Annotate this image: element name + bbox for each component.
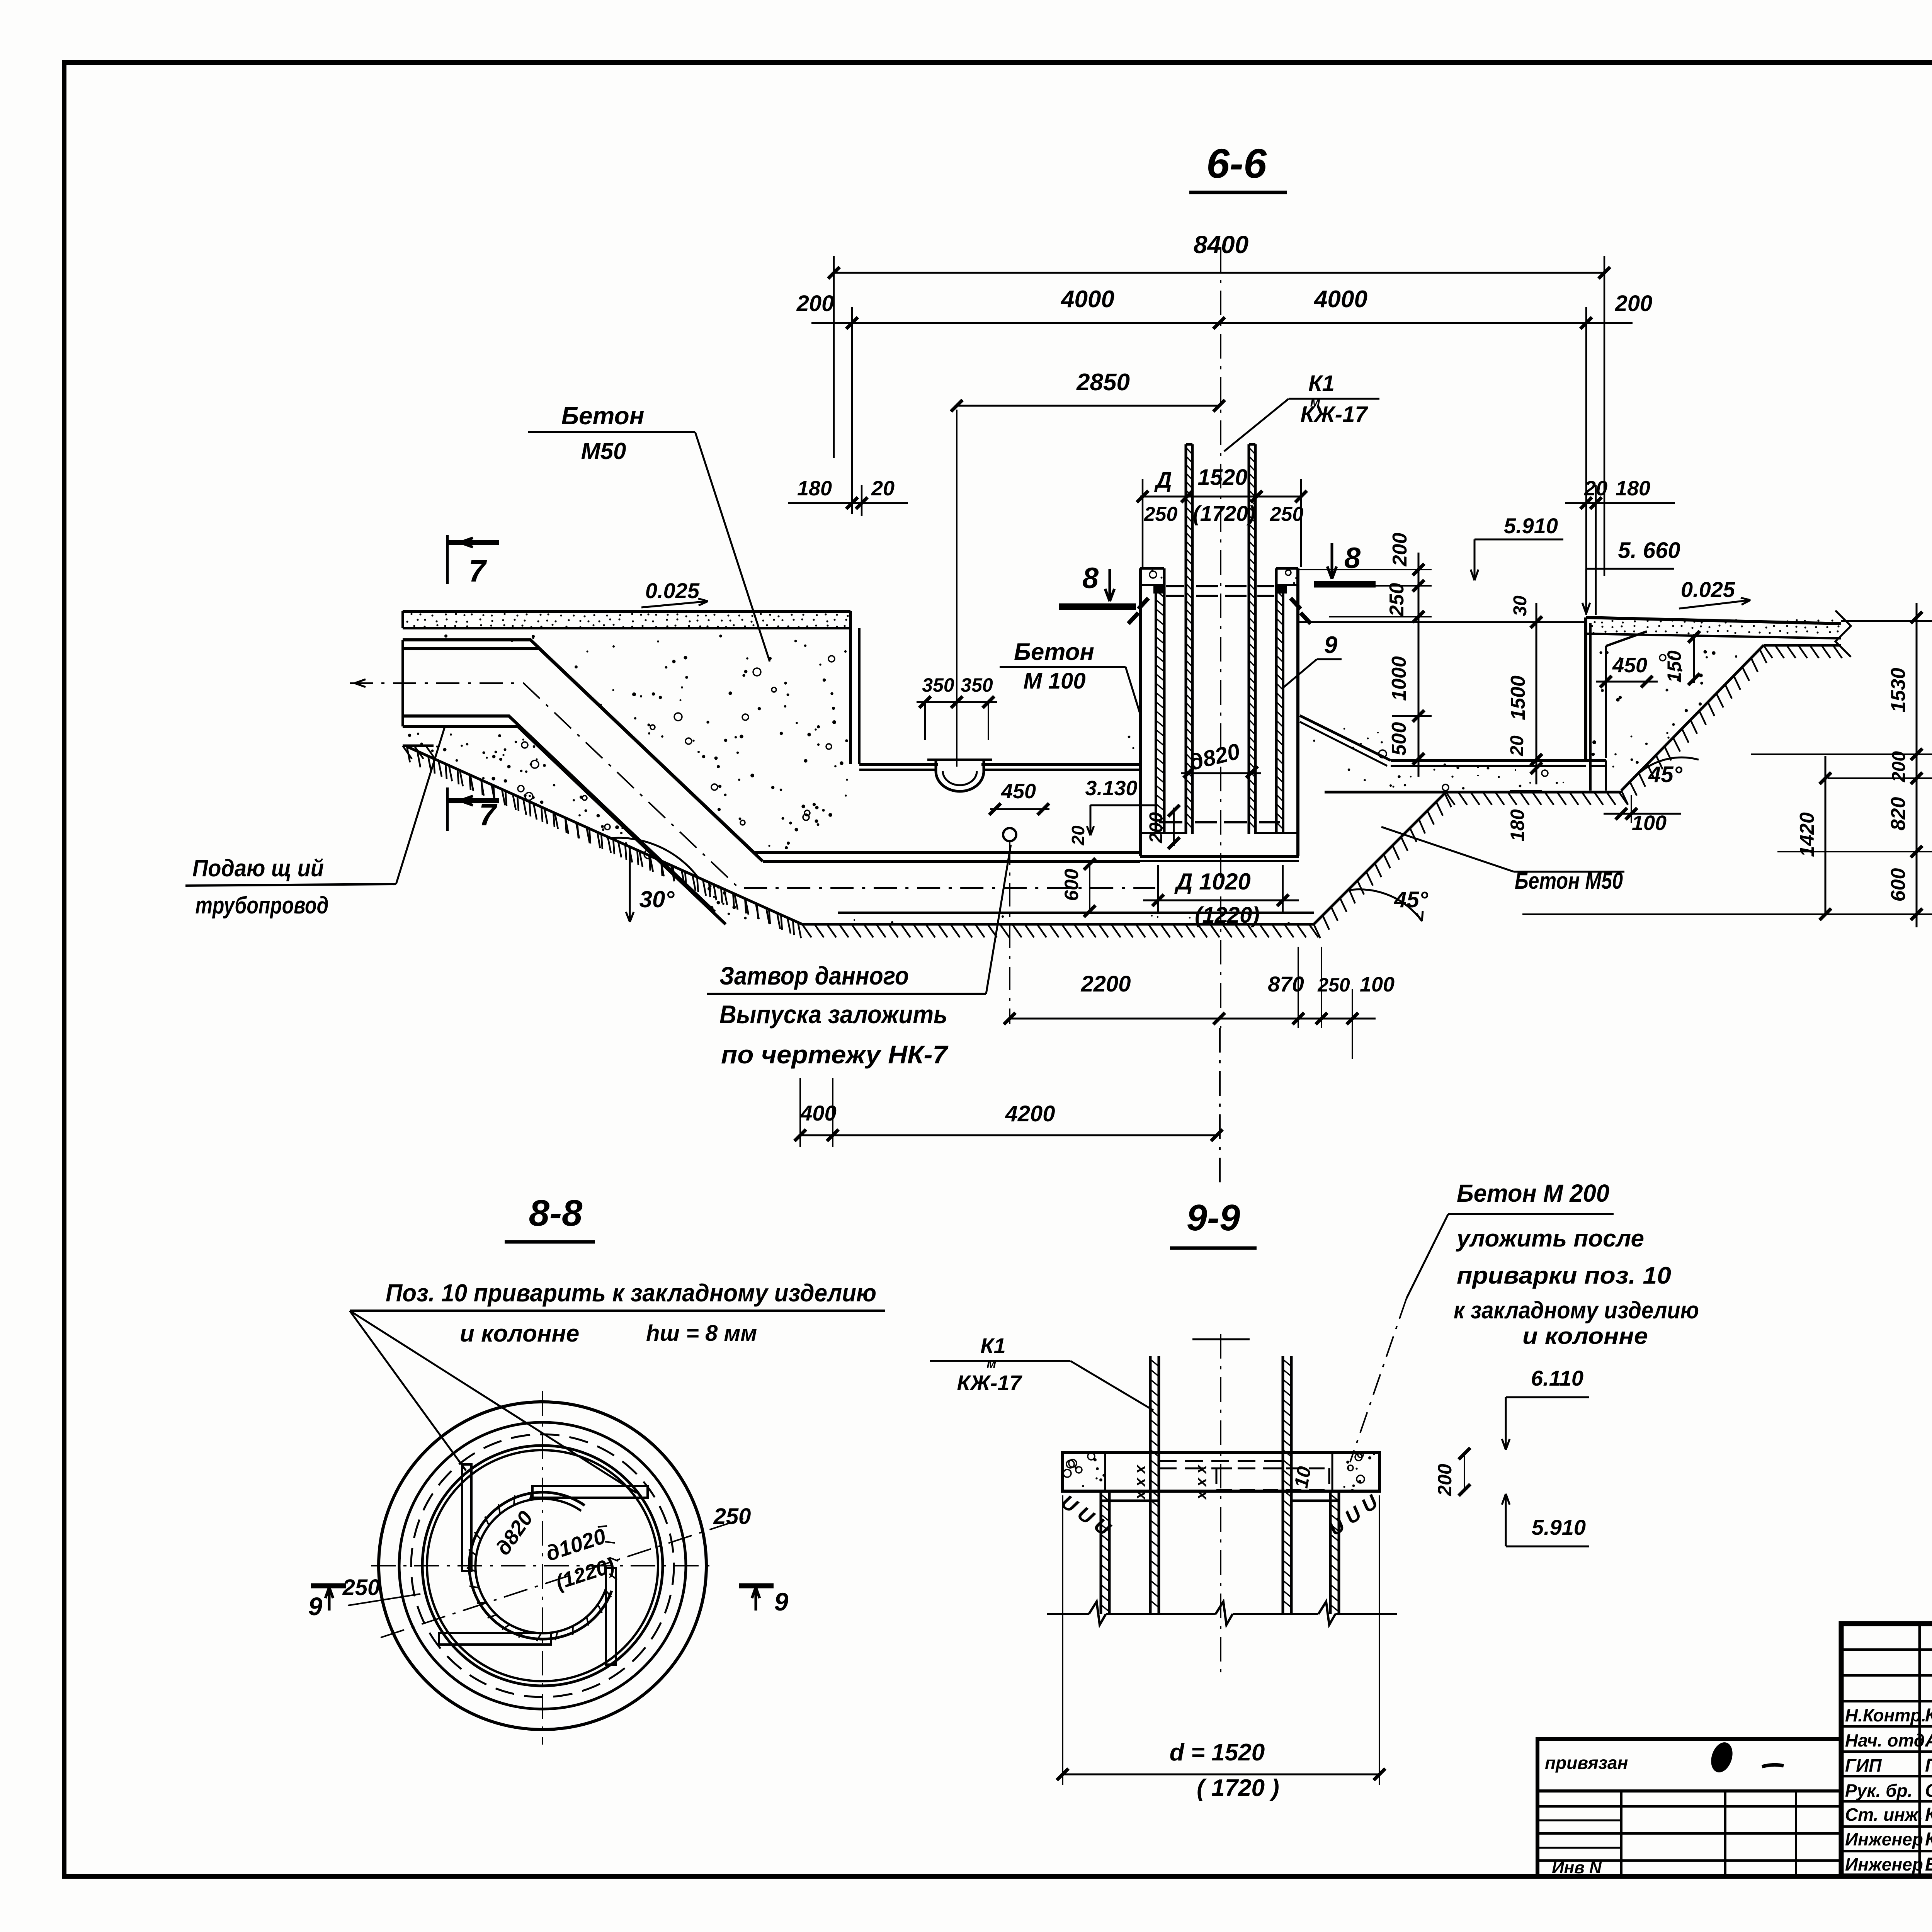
svg-text:150: 150 <box>1663 650 1685 683</box>
svg-text:и колонне: и колонне <box>460 1320 579 1347</box>
duct under basin <box>754 851 1140 854</box>
svg-text:200: 200 <box>1889 751 1909 782</box>
svg-text:1530: 1530 <box>1887 668 1910 713</box>
svg-text:250: 250 <box>1270 503 1304 526</box>
drain outlet semicircle <box>936 760 984 791</box>
svg-text:Поз. 10 приварить к закла: Поз. 10 приварить к закладному изделию <box>386 1279 876 1307</box>
basin left wall <box>849 611 852 764</box>
svg-text:Д: Д <box>1154 468 1172 493</box>
svg-text:уложить после: уложить после <box>1456 1225 1644 1252</box>
svg-text:к закладному изделию: к закладному изделию <box>1454 1297 1699 1324</box>
9-9 dim d=1520 (1720) <box>1062 1495 1063 1785</box>
svg-text:x x x: x x x <box>1132 1464 1149 1500</box>
svg-text:КЖ-17: КЖ-17 <box>1300 402 1368 427</box>
svg-text:1500: 1500 <box>1507 675 1529 720</box>
svg-text:Подаю щ ий: Подаю щ ий <box>192 855 324 882</box>
svg-text:Инв N: Инв N <box>1552 1858 1602 1877</box>
svg-text:Станина: Станина <box>1925 1781 1932 1801</box>
svg-text:100: 100 <box>1632 811 1667 835</box>
right basin wall <box>1584 617 1587 760</box>
embedded plates (black) <box>1153 584 1164 594</box>
svg-text:Ст. инж.: Ст. инж. <box>1845 1804 1923 1825</box>
svg-text:350: 350 <box>922 674 954 696</box>
svg-text:20: 20 <box>1507 735 1527 757</box>
zatvor circle <box>1003 828 1016 841</box>
svg-text:45°: 45° <box>1648 762 1683 787</box>
svg-text:М50: М50 <box>581 438 626 464</box>
svg-text:7: 7 <box>479 798 498 832</box>
svg-text:4000: 4000 <box>1313 286 1367 313</box>
svg-text:7: 7 <box>469 554 487 588</box>
dim chain x3976: 30 1500 20 <box>1536 603 1537 784</box>
excavation right slope 45 <box>1314 792 1446 924</box>
svg-text:Корнилова: Корнилова <box>1925 1705 1932 1726</box>
water level dashes across column <box>1166 585 1184 587</box>
8-8 cut mark 9 right <box>739 1583 774 1588</box>
svg-text:180: 180 <box>797 477 832 500</box>
svg-text:Бетон М50: Бетон М50 <box>1515 868 1623 894</box>
svg-text:М 100: М 100 <box>1023 668 1085 694</box>
9-9 centerline <box>1220 1334 1221 1673</box>
svg-text:20: 20 <box>1068 825 1088 846</box>
svg-text:приварки поз. 10: приварки поз. 10 <box>1457 1262 1671 1289</box>
svg-text:Затвор данного: Затвор данного <box>719 961 909 990</box>
dim 1420 <box>1825 756 1827 914</box>
svg-text:и колонне: и колонне <box>1522 1323 1648 1349</box>
svg-text:180: 180 <box>1616 477 1650 500</box>
svg-text:Д 1020: Д 1020 <box>1174 869 1250 895</box>
svg-text:2200: 2200 <box>1080 971 1131 997</box>
dim 8400 <box>833 256 835 458</box>
svg-text:Бетон: Бетон <box>561 402 645 430</box>
dim chain x4960 <box>1916 603 1918 927</box>
title block outer <box>1841 1624 1932 1876</box>
title block row lines <box>1841 1648 1932 1651</box>
ground surface band top-left <box>403 610 850 613</box>
svg-text:100: 100 <box>1360 973 1395 996</box>
svg-text:К1: К1 <box>980 1333 1006 1358</box>
svg-text:9-9: 9-9 <box>1187 1197 1240 1238</box>
svg-text:8-8: 8-8 <box>529 1192 583 1234</box>
svg-text:1420: 1420 <box>1796 812 1818 857</box>
svg-text:9: 9 <box>1324 632 1338 658</box>
svg-text:Бетон: Бетон <box>1014 639 1094 665</box>
svg-text:3.130: 3.130 <box>1085 777 1137 800</box>
channel inner face lines <box>401 640 404 726</box>
svg-text:hш = 8 мм: hш = 8 мм <box>646 1321 757 1346</box>
title block vertical lines left part <box>1918 1624 1921 1876</box>
cut mark 7 lower <box>446 787 449 831</box>
central column: outer wall right <box>1275 568 1278 833</box>
dim 2850 <box>957 405 1219 407</box>
excavation bottom hatched <box>802 923 1314 926</box>
svg-text:200: 200 <box>1146 812 1167 844</box>
svg-text:(1720): (1720) <box>1193 501 1255 526</box>
svg-text:8: 8 <box>1082 562 1099 595</box>
wedge fill left of column <box>1128 736 1131 738</box>
footing stipple <box>1665 689 1668 691</box>
svg-text:3150: 3150 <box>1930 697 1932 742</box>
9-9 hidden dashes in slab <box>1159 1460 1283 1462</box>
concrete M50 backfill stipple (big) <box>844 650 847 653</box>
weld dashes at plates <box>1138 598 1148 609</box>
basin floor right <box>1391 759 1586 762</box>
8-8 circles <box>379 1402 706 1730</box>
wedge slope right of column <box>1300 716 1391 760</box>
central column: outer wall left <box>1139 568 1142 856</box>
svg-text:4000: 4000 <box>1060 286 1114 313</box>
extension lines right side <box>1841 620 1932 622</box>
svg-text:450: 450 <box>1001 780 1036 803</box>
svg-text:К1: К1 <box>1308 371 1335 396</box>
svg-text:Альтшуллер: Альтшуллер <box>1925 1730 1932 1751</box>
svg-text:10: 10 <box>1290 1465 1315 1490</box>
svg-text:x x x: x x x <box>1193 1464 1210 1500</box>
centerline of column <box>1220 247 1221 1028</box>
dashes at pipe bottom <box>1159 821 1182 823</box>
svg-text:Рук. бр.: Рук. бр. <box>1845 1781 1913 1801</box>
svg-text:6.110: 6.110 <box>1531 1366 1583 1390</box>
svg-text:по чертежу НК-7: по чертежу НК-7 <box>721 1040 949 1069</box>
svg-text:5.910: 5.910 <box>1504 514 1558 538</box>
8-8 cut mark 9 left <box>311 1583 346 1588</box>
svg-text:500: 500 <box>1388 722 1410 756</box>
svg-text:250: 250 <box>1386 583 1408 617</box>
svg-text:250: 250 <box>1144 503 1178 526</box>
svg-text:Крюков: Крюков <box>1925 1829 1932 1850</box>
svg-text:200: 200 <box>1615 291 1653 316</box>
8-8 plates poz10 <box>462 1464 471 1571</box>
svg-text:привязан: привязан <box>1545 1753 1628 1773</box>
9-9 slab <box>1063 1452 1379 1491</box>
excavation slope 30deg hatched <box>407 747 802 924</box>
svg-text:1000: 1000 <box>1388 656 1410 701</box>
footing ledge 450x150 <box>1605 646 1607 758</box>
svg-text:350: 350 <box>961 674 993 696</box>
bedding band <box>838 912 1314 914</box>
svg-text:180: 180 <box>1507 809 1528 842</box>
svg-text:5.910: 5.910 <box>1532 1515 1586 1539</box>
svg-text:200: 200 <box>1389 533 1411 567</box>
8-8 leaders <box>350 1311 466 1471</box>
svg-text:5. 660: 5. 660 <box>1618 538 1680 563</box>
ink blob <box>1708 1740 1736 1775</box>
dim chain x3671: 200 250 1000 500 <box>1418 553 1420 777</box>
central column: pipe walls (d820) <box>1185 444 1187 834</box>
svg-text:Бетон М 200: Бетон М 200 <box>1457 1179 1609 1207</box>
svg-text:Инженер: Инженер <box>1845 1829 1923 1849</box>
feeding pipe channel (left, 30 deg) <box>403 640 754 852</box>
cut mark 7 upper <box>446 535 449 584</box>
9-9 column pipe walls <box>1149 1356 1152 1614</box>
channel centerline <box>350 683 1155 888</box>
concrete band under channel <box>722 903 724 905</box>
svg-text:250: 250 <box>713 1504 751 1529</box>
svg-text:30°: 30° <box>639 886 675 912</box>
right break mark <box>1835 611 1851 657</box>
svg-text:600: 600 <box>1061 869 1082 901</box>
svg-text:Болотова: Болотова <box>1925 1854 1932 1875</box>
svg-text:1520: 1520 <box>1197 465 1247 490</box>
annex table <box>1537 1739 1841 1876</box>
svg-text:9: 9 <box>308 1592 323 1621</box>
svg-text:2850: 2850 <box>1076 369 1130 396</box>
svg-text:250: 250 <box>342 1575 380 1600</box>
svg-text:9: 9 <box>774 1587 789 1616</box>
footing region 45deg right <box>1621 645 1764 791</box>
svg-text:( 1720 ): ( 1720 ) <box>1197 1775 1279 1801</box>
9-9 hanging walls below slab <box>1100 1491 1102 1614</box>
svg-text:Инженер: Инженер <box>1845 1854 1923 1874</box>
svg-text:м: м <box>986 1356 996 1371</box>
svg-text:Корнилова: Корнилова <box>1925 1804 1932 1825</box>
svg-text:Гольдина.: Гольдина. <box>1925 1755 1932 1776</box>
basin waterline right <box>1299 621 1586 623</box>
svg-text:600: 600 <box>1887 868 1910 902</box>
svg-text:200: 200 <box>1434 1464 1456 1497</box>
svg-text:(1220): (1220) <box>1195 903 1260 928</box>
ground surface band right <box>1586 617 1841 624</box>
9-9 break line bottom <box>1047 1613 1089 1615</box>
svg-text:ГИП: ГИП <box>1845 1755 1882 1776</box>
svg-text:20: 20 <box>871 477 895 500</box>
svg-text:d = 1520: d = 1520 <box>1170 1739 1265 1766</box>
svg-text:0.025: 0.025 <box>645 578 700 603</box>
svg-text:400: 400 <box>800 1101 836 1125</box>
dim 4000 4000 200 200 <box>811 322 1633 324</box>
8-8 inner pipe arc d820 <box>469 1492 612 1639</box>
8-8 crosshairs <box>371 1565 715 1566</box>
svg-text:Выпуска заложить: Выпуска заложить <box>719 1000 947 1029</box>
svg-text:200: 200 <box>796 291 834 316</box>
label Beton M50 bottom <box>1514 871 1624 873</box>
svg-text:6-6: 6-6 <box>1206 140 1267 187</box>
svg-text:Нач. отд.: Нач. отд. <box>1845 1730 1930 1750</box>
svg-text:30: 30 <box>1510 595 1531 616</box>
column top concrete patches <box>1161 577 1163 579</box>
svg-text:820: 820 <box>1887 797 1910 831</box>
svg-text:трубопровод: трубопровод <box>196 892 329 919</box>
svg-text:4200: 4200 <box>1005 1101 1055 1126</box>
svg-text:Н.Контр.: Н.Контр. <box>1845 1705 1926 1725</box>
svg-text:0.025: 0.025 <box>1681 577 1735 602</box>
basin floor left part <box>859 763 938 766</box>
svg-text:КЖ-17: КЖ-17 <box>957 1371 1022 1395</box>
svg-text:450: 450 <box>1612 654 1647 677</box>
column foundation bottom <box>1140 832 1186 834</box>
